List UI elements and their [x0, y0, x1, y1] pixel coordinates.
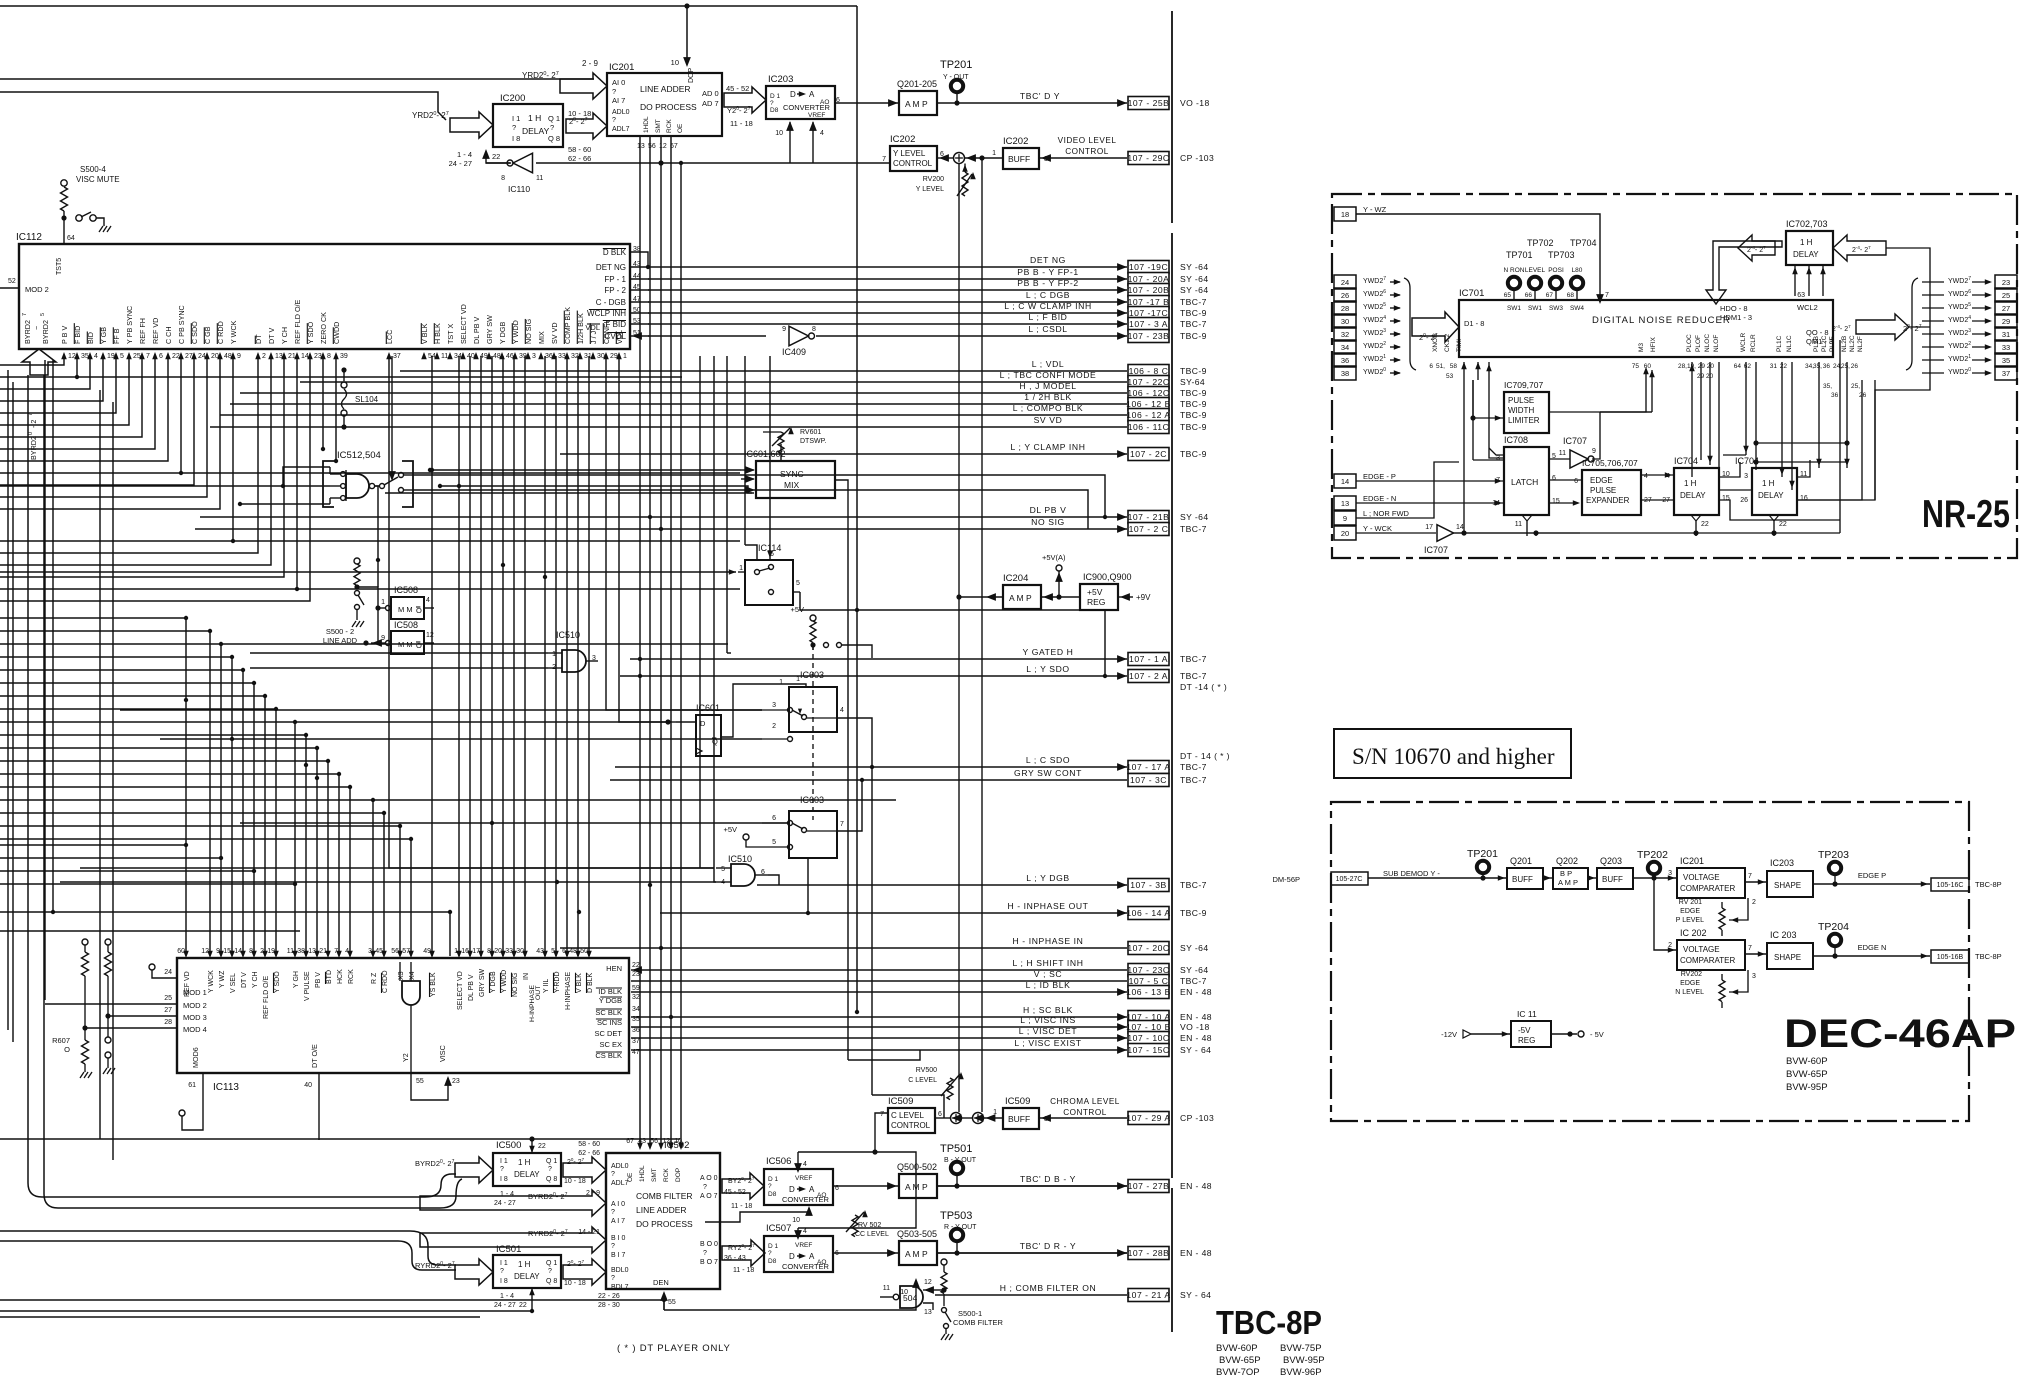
NR-25 board border: [1332, 194, 2017, 558]
svg-text:AO: AO: [817, 1192, 826, 1199]
wire bottom y1300 DEN feed: [0, 1299, 664, 1301]
NR-25 input pin 13 EDGE-N: [1334, 496, 1356, 510]
svg-text:37: 37: [632, 1038, 640, 1045]
svg-text:DO PROCESS: DO PROCESS: [640, 102, 697, 112]
svg-text:5: 5: [796, 580, 800, 587]
IC201 voltage comparater: [1677, 868, 1745, 898]
svg-text:SC EX: SC EX: [599, 1040, 622, 1049]
svg-text:B - Y OUT: B - Y OUT: [944, 1157, 977, 1164]
svg-text:1 H: 1 H: [528, 113, 541, 123]
wire bus vertical x589 IC112 to IC113: [588, 356, 590, 956]
svg-text:EDGE: EDGE: [1680, 980, 1700, 987]
svg-text:1: 1: [739, 565, 743, 572]
amplifier Q202 BP AMP: [1553, 868, 1588, 889]
svg-text:4: 4: [1644, 473, 1648, 480]
svg-text:DELAY: DELAY: [522, 126, 550, 136]
svg-text:Y DGB: Y DGB: [490, 971, 497, 993]
svg-text:YWD26: YWD26: [1948, 289, 1971, 298]
svg-text:3: 3: [1744, 473, 1748, 480]
IC113 pin 27 MOD3: [108, 1015, 177, 1017]
wire bus vertical x470 IC112 to IC113: [469, 356, 471, 956]
svg-text:COMPARATER: COMPARATER: [1680, 884, 1735, 893]
svg-text:4: 4: [803, 1228, 807, 1235]
svg-text:1 H: 1 H: [1762, 479, 1775, 488]
svg-text:D 1: D 1: [768, 1176, 779, 1183]
svg-text:HDM1 - 3: HDM1 - 3: [1720, 313, 1752, 322]
svg-text:GRY SW: GRY SW: [485, 315, 494, 344]
svg-text:IC601,602: IC601,602: [744, 449, 786, 459]
svg-text:M M: M M: [398, 605, 413, 614]
svg-text:L ; Y DGB: L ; Y DGB: [1026, 873, 1069, 883]
NR-25 output pin 35 YWD2^1: [1995, 353, 2017, 367]
svg-text:A M P: A M P: [905, 1249, 928, 1259]
svg-text:IC707: IC707: [1563, 436, 1587, 446]
IC509 C level control: [888, 1108, 935, 1133]
svg-text:OE: OE: [677, 123, 684, 133]
wire CK up: [1472, 380, 1474, 418]
svg-text:V PULSE: V PULSE: [304, 971, 311, 1001]
svg-text:YWD26: YWD26: [1363, 289, 1386, 298]
svg-text:TBC-9: TBC-9: [1180, 331, 1207, 341]
svg-text:IC200: IC200: [500, 93, 525, 104]
wire EDGE N to 105-16B: [1813, 955, 1930, 957]
svg-text:YWD22: YWD22: [1948, 341, 1971, 350]
connector 107 - 3B L ; Y DGB: [757, 884, 1127, 886]
svg-text:VIDEO LEVEL: VIDEO LEVEL: [1058, 136, 1117, 145]
svg-text:VOLTAGE: VOLTAGE: [1683, 873, 1720, 882]
svg-text:B I 7: B I 7: [611, 1252, 626, 1259]
svg-text:IC203: IC203: [1770, 858, 1794, 868]
svg-text:38: 38: [1341, 369, 1349, 378]
svg-text:13: 13: [924, 1309, 932, 1316]
connector 106 - 11C SV VD: [210, 426, 1127, 428]
svg-text:R - Y OUT: R - Y OUT: [944, 1224, 977, 1231]
wire BUFF to summing: [984, 1117, 1003, 1119]
wire across top of delays: [1756, 442, 1847, 444]
svg-text:MOD 4: MOD 4: [183, 1025, 207, 1034]
svg-text:107 - 29 A: 107 - 29 A: [1126, 1113, 1170, 1123]
svg-text:DELAY: DELAY: [514, 1272, 540, 1281]
svg-text:24: 24: [1341, 278, 1349, 287]
svg-text:DIGITAL NOISE REDUCER: DIGITAL NOISE REDUCER: [1592, 315, 1731, 326]
svg-text:A O 0: A O 0: [700, 1175, 718, 1182]
svg-text:6: 6: [1429, 363, 1433, 370]
svg-text:DET NG: DET NG: [596, 263, 626, 272]
svg-text:23: 23: [452, 1078, 460, 1085]
svg-text:ADL7: ADL7: [612, 126, 630, 133]
svg-text:51,: 51,: [1436, 363, 1445, 370]
svg-text:7: 7: [840, 821, 844, 828]
IC702,703 1H delay: [1786, 231, 1833, 265]
svg-text:NO SIG: NO SIG: [1031, 517, 1065, 527]
svg-text:A M P: A M P: [905, 99, 928, 109]
svg-text:COMB FILTER: COMB FILTER: [636, 1191, 693, 1201]
wire vertical x45: [44, 360, 46, 1000]
svg-text:107 - 20B: 107 - 20B: [1128, 285, 1170, 295]
wire into IC112 pin at x181: [0, 356, 181, 473]
wire DOP drop to IC201 pin 10: [686, 6, 688, 62]
NR-25 input pin 38 YWD2^0: [1334, 366, 1356, 380]
svg-text:7: 7: [1748, 873, 1752, 880]
svg-text:64: 64: [67, 235, 75, 242]
svg-text:Q500-502: Q500-502: [897, 1162, 937, 1172]
bus arrow IC200 Q to IC201 ADL0-ADL7: [566, 113, 607, 139]
svg-text:10: 10: [775, 130, 783, 137]
wire IC203 pin 4 vref: [812, 122, 814, 163]
svg-text:D8: D8: [768, 1191, 777, 1198]
wire into IC112 pin at x142: [0, 356, 142, 437]
wire into IC113 pin at x373: [0, 800, 373, 954]
svg-text:1 - 4: 1 - 4: [457, 150, 472, 159]
svg-text:IC508: IC508: [394, 620, 418, 630]
svg-text:IC512,504: IC512,504: [337, 450, 381, 461]
test point TP204: [1829, 934, 1841, 946]
svg-text:V SEL: V SEL: [230, 973, 237, 993]
svg-text:H - INPHASE IN: H - INPHASE IN: [1013, 936, 1084, 946]
svg-text:BYRD20- 27: BYRD20- 27: [415, 1159, 455, 1168]
svg-text:VO -18: VO -18: [1180, 1022, 1210, 1032]
svg-text:IC509: IC509: [1005, 1096, 1030, 1107]
svg-text:12: 12: [659, 143, 667, 150]
svg-text:REG: REG: [1087, 597, 1105, 607]
wire into IC112 pin at x271: [0, 356, 271, 565]
svg-text:TIMI: TIMI: [1456, 339, 1463, 352]
wire IC506 to AMP: [833, 1185, 899, 1187]
svg-text:107 - 21B: 107 - 21B: [1128, 512, 1170, 522]
svg-text:32: 32: [632, 994, 640, 1001]
NR-25 input pin 26 YWD2^6: [1334, 288, 1356, 302]
wire H COMB FILTER ON line: [935, 1294, 1127, 1296]
wire bottom y1311 IC501 pin22 feed: [0, 1310, 532, 1312]
svg-text:TP201: TP201: [940, 59, 972, 71]
svg-text:TBC-9: TBC-9: [1180, 308, 1207, 318]
svg-text:IC508: IC508: [394, 585, 418, 595]
svg-text:Q 8: Q 8: [546, 1278, 557, 1285]
svg-text:NLOF: NLOF: [1713, 335, 1720, 352]
node junction on strobe line: [658, 160, 663, 165]
svg-text:55: 55: [416, 1078, 424, 1085]
wire horizontal left y871: [0, 870, 254, 872]
svg-text:EN - 48: EN - 48: [1180, 1181, 1212, 1191]
connector 107 - 2C L ; Y CLAMP INH: [560, 453, 1127, 455]
svg-text:COMPARATER: COMPARATER: [1680, 956, 1735, 965]
wire H-INPHASE OUT feed: [806, 911, 810, 915]
svg-text:LEVEL: LEVEL: [1525, 267, 1546, 274]
svg-text:?: ?: [611, 1275, 615, 1282]
svg-text:C RDO: C RDO: [382, 970, 389, 993]
node junction: [184, 698, 188, 702]
svg-text:IC707: IC707: [1424, 545, 1448, 555]
wire data bus vertical x650: [649, 137, 651, 1146]
svg-text:NL2F: NL2F: [1857, 336, 1864, 352]
svg-text:TBC-9: TBC-9: [1180, 422, 1207, 432]
node junction: [659, 527, 663, 531]
svg-text:REG: REG: [1518, 1036, 1535, 1045]
svg-text:DT O/E: DT O/E: [310, 1044, 319, 1068]
svg-text:34: 34: [1341, 343, 1349, 352]
svg-text:60: 60: [1644, 363, 1652, 370]
wire PL2 NL2 verticals: [1818, 362, 1820, 468]
svg-text:DL PB V: DL PB V: [1030, 505, 1067, 515]
svg-text:DELAY: DELAY: [1793, 250, 1819, 259]
svg-text:107 - 15C: 107 - 15C: [1127, 1045, 1169, 1055]
svg-text:BYRD2: BYRD2: [29, 436, 38, 460]
svg-text:1: 1: [779, 679, 783, 686]
svg-text:L ; H SHIFT INH: L ; H SHIFT INH: [1012, 958, 1083, 968]
svg-text:DEC-46AP: DEC-46AP: [1784, 1012, 2016, 1056]
NR-25 input pin 18 Y-WZ: [1334, 207, 1356, 221]
wire horizontal y668: [250, 667, 548, 669]
wire into IC112 pin at x90: [0, 356, 90, 389]
svg-text:PULSE: PULSE: [1590, 486, 1616, 495]
svg-text:BDL0: BDL0: [611, 1267, 629, 1274]
svg-text:V BLK: V BLK: [576, 973, 583, 993]
svg-text:BVW-60P: BVW-60P: [1786, 1056, 1828, 1067]
wire IC504 switch output right: [413, 475, 1105, 517]
svg-text:LINE ADDER: LINE ADDER: [636, 1205, 687, 1215]
svg-text:DM-56P: DM-56P: [1272, 875, 1300, 884]
svg-text:35,: 35,: [1823, 383, 1832, 390]
IC704 1H delay second: [1752, 468, 1797, 515]
svg-text:PB B - Y FP-2: PB B - Y FP-2: [1017, 278, 1078, 288]
svg-text:DTSWP.: DTSWP.: [800, 438, 826, 445]
wire bus vertical x492 IC112 to IC113: [491, 356, 493, 956]
svg-text:23: 23: [632, 971, 640, 978]
svg-text:13: 13: [1341, 499, 1349, 508]
test point TP501 B-Y OUT: [951, 1162, 963, 1174]
IC508 monostable upper: [391, 597, 424, 619]
svg-text:IC507: IC507: [766, 1223, 791, 1234]
svg-text:SV VD: SV VD: [1034, 415, 1063, 425]
svg-text:26: 26: [1341, 291, 1349, 300]
svg-text:55: 55: [668, 1299, 676, 1306]
svg-text:BVW-95P: BVW-95P: [1283, 1355, 1325, 1366]
wire horizontal y868: [80, 867, 714, 869]
wire into IC113 pin at x328: [0, 761, 328, 954]
svg-text:64: 64: [1734, 363, 1742, 370]
svg-text:A M P: A M P: [905, 1182, 928, 1192]
svg-text:2: 2: [772, 723, 776, 730]
svg-text:IC510: IC510: [728, 854, 752, 864]
svg-text:23: 23: [2002, 278, 2010, 287]
connector 107 - 2 C NO SIG: [195, 528, 1127, 530]
svg-text:36 - 43: 36 - 43: [724, 1255, 746, 1262]
svg-text:EN - 48: EN - 48: [1180, 1033, 1212, 1043]
svg-text:36: 36: [632, 1027, 640, 1034]
svg-text:62 - 66: 62 - 66: [568, 154, 591, 163]
svg-text:L ; F BID: L ; F BID: [1029, 312, 1068, 322]
wire sync mix inputs: [741, 469, 754, 471]
connector 107 - 10 B L ; VISC INS: [631, 1026, 1127, 1028]
svg-text:18: 18: [1341, 210, 1349, 219]
wire bus vertical x514 IC112 to IC113: [513, 356, 515, 956]
connector 107 - 10 A H ; SC BLK: [631, 1016, 1127, 1018]
svg-text:PL2F: PL2F: [1829, 336, 1836, 352]
svg-text:SHAPE: SHAPE: [1774, 953, 1801, 962]
svg-text:N LEVEL: N LEVEL: [1675, 989, 1704, 996]
NR-25 input brace: [1404, 278, 1416, 370]
svg-text:CK1,2: CK1,2: [1444, 334, 1451, 352]
svg-text:TBC-7: TBC-7: [1180, 654, 1207, 664]
wire stub IC112 edge to row y324: [631, 323, 649, 325]
wire CONFI drop to IC603: [606, 356, 762, 710]
svg-text:24: 24: [164, 969, 172, 976]
svg-text:?: ?: [768, 1183, 772, 1190]
svg-text:28: 28: [164, 1019, 172, 1026]
wire YRD2 bus upper from left edge: [0, 78, 594, 80]
svg-text:CP -103: CP -103: [1180, 1113, 1214, 1123]
wire IC112 pin x323 drop: [322, 356, 324, 449]
svg-text:SW4: SW4: [1570, 305, 1584, 312]
svg-text:TBC-7: TBC-7: [1180, 775, 1207, 785]
wire Q201 to Q202: [1543, 877, 1553, 879]
bus arrow RYRD into IC501: [455, 1259, 493, 1285]
svg-text:YS BLK: YS BLK: [430, 972, 437, 997]
wire VIDEO LEVEL CONTROL from 107-29C: [1039, 157, 1127, 159]
wire into IC112 pin at x77: [0, 356, 77, 377]
svg-text:IC 11: IC 11: [1517, 1009, 1537, 1019]
svg-text:D: D: [790, 90, 796, 99]
svg-text:24 - 27: 24 - 27: [449, 159, 472, 168]
svg-text:YWD23: YWD23: [1363, 328, 1386, 337]
svg-text:TBC-9: TBC-9: [1180, 449, 1207, 459]
svg-text:?: ?: [512, 123, 516, 132]
svg-text:27: 27: [2002, 304, 2010, 313]
svg-text:28: 28: [1341, 304, 1349, 313]
svg-text:CHROMA LEVEL: CHROMA LEVEL: [1050, 1097, 1120, 1106]
svg-text:3: 3: [1668, 870, 1672, 877]
wire bus vertical x459 IC112 to IC113: [458, 356, 460, 956]
svg-text:TP503: TP503: [940, 1210, 972, 1222]
svg-text:10 - 18: 10 - 18: [564, 1178, 586, 1185]
bus arrow IC201 AD to IC203 D1-D8: [724, 87, 766, 113]
svg-text:~: ~: [32, 326, 41, 330]
svg-text:53: 53: [1446, 373, 1454, 380]
svg-text:IC900,Q900: IC900,Q900: [1083, 572, 1132, 582]
svg-text:H , J MODEL: H , J MODEL: [1019, 381, 1076, 391]
svg-text:22: 22: [632, 962, 640, 969]
svg-text:Y CH: Y CH: [252, 971, 259, 988]
svg-text:31: 31: [1770, 363, 1778, 370]
NR-25 input pin 30 YWD2^4: [1334, 314, 1356, 328]
svg-text:REF VD: REF VD: [151, 318, 160, 344]
connector 107 - 23B L ; CSDL: [816, 335, 1127, 337]
svg-text:L ; VISC INS: L ; VISC INS: [1020, 1015, 1076, 1025]
IC203 shape first: [1767, 871, 1813, 897]
svg-text:11: 11: [1559, 450, 1566, 457]
svg-text:62 - 66: 62 - 66: [578, 1150, 600, 1157]
svg-text:R Z: R Z: [371, 972, 378, 984]
svg-text:WCL2: WCL2: [1797, 303, 1818, 312]
svg-text:5: 5: [40, 313, 46, 316]
svg-text:?: ?: [611, 1243, 615, 1250]
svg-text:IC112: IC112: [16, 232, 42, 243]
svg-text:ADL0: ADL0: [612, 109, 630, 116]
svg-text:TST X: TST X: [446, 324, 455, 344]
svg-text:3: 3: [532, 353, 536, 360]
wire IC204 to +5V REG: [1041, 596, 1080, 598]
svg-text:47: 47: [632, 1049, 640, 1056]
svg-text:PB V: PB V: [315, 972, 322, 988]
IC704 1H delay first: [1674, 468, 1719, 515]
svg-text:107 - 2 C: 107 - 2 C: [1129, 524, 1169, 534]
wire bottom y1197 BYRD upper: [42, 1196, 425, 1198]
wire vertical x8: [7, 370, 9, 1030]
svg-text:6: 6: [1552, 475, 1556, 482]
svg-text:5: 5: [721, 866, 725, 873]
connector 107 - 20C H - INPHASE IN: [560, 947, 1127, 949]
connector 106 - 12 A L ; COMPO BLK: [220, 414, 1127, 416]
svg-text:S500 - 2: S500 - 2: [326, 627, 354, 636]
summing node chroma 2: [973, 1113, 984, 1124]
inverter IC110: [513, 153, 533, 173]
svg-text:11 - 18: 11 - 18: [731, 1203, 752, 1210]
svg-text:45 - 52: 45 - 52: [726, 84, 749, 93]
svg-text:IC201: IC201: [1680, 856, 1704, 866]
svg-text:24 - 27: 24 - 27: [494, 1302, 516, 1309]
svg-text:VISC: VISC: [438, 1045, 447, 1062]
svg-text:4: 4: [803, 1161, 807, 1168]
svg-text:IC202: IC202: [890, 134, 915, 145]
svg-text:58 - 60: 58 - 60: [578, 1141, 600, 1148]
svg-text:A: A: [809, 1252, 815, 1261]
svg-text:PLOC: PLOC: [1686, 334, 1693, 352]
svg-text:D: D: [700, 719, 706, 728]
amplifier Q500-502: [899, 1174, 937, 1198]
svg-text:Q201: Q201: [1510, 856, 1532, 866]
wire IC603 upper output: [837, 718, 872, 767]
connector 107 - 20B PB B - Y FP-2: [648, 289, 1127, 291]
svg-text:36: 36: [1823, 363, 1831, 370]
wire comparator2 to shape2: [1745, 953, 1767, 955]
svg-text:D 1: D 1: [770, 93, 781, 100]
node junction: [543, 575, 547, 579]
IC202 buffer: [1003, 148, 1039, 169]
svg-text:RV200: RV200: [923, 176, 944, 183]
wire into IC113 pin at x295: [0, 722, 295, 954]
svg-text:TBC' D Y: TBC' D Y: [1020, 91, 1060, 101]
wire stub IC112 edge to row y336: [631, 335, 649, 337]
wire vertical video line x982: [981, 158, 983, 1112]
svg-text:TBC-9: TBC-9: [1180, 399, 1207, 409]
svg-text:HDO - 8: HDO - 8: [1720, 304, 1748, 313]
svg-text:CC LEVEL: CC LEVEL: [855, 1231, 889, 1238]
wire data bus vertical x661: [660, 137, 662, 1146]
nand gate IC512: [346, 474, 369, 498]
svg-text:IC509: IC509: [888, 1096, 913, 1107]
svg-text:107 - 2 A: 107 - 2 A: [1129, 671, 1168, 681]
svg-text:TBC-8P: TBC-8P: [1975, 880, 2002, 889]
svg-text:107 - 25B: 107 - 25B: [1128, 98, 1170, 108]
svg-text:MIX: MIX: [784, 480, 799, 490]
IC113 pin 28 MOD4: [85, 1027, 177, 1029]
svg-text:7: 7: [880, 1111, 884, 1118]
NR-25 output pin 27 YWD2^5: [1995, 301, 2017, 315]
svg-text:SYNC: SYNC: [780, 469, 804, 479]
amplifier IC204: [1003, 585, 1041, 609]
svg-text:- 5V: - 5V: [1590, 1030, 1604, 1039]
svg-text:BUFF: BUFF: [1008, 1114, 1030, 1124]
svg-text:TBC-8P: TBC-8P: [1975, 952, 2002, 961]
wire IC512 nand out down: [375, 486, 378, 560]
wire TBC'D B-Y: [937, 1185, 1127, 1187]
connector 107 - 5 C V ; SC: [631, 980, 1127, 982]
bus arrow BYRD2 into IC502 AI: [420, 1190, 606, 1216]
svg-text:10: 10: [792, 1217, 800, 1224]
IC501 1H delay: [493, 1255, 561, 1288]
potentiometer RV200 Y LEVEL: [962, 172, 968, 196]
svg-text:22: 22: [538, 1143, 546, 1150]
